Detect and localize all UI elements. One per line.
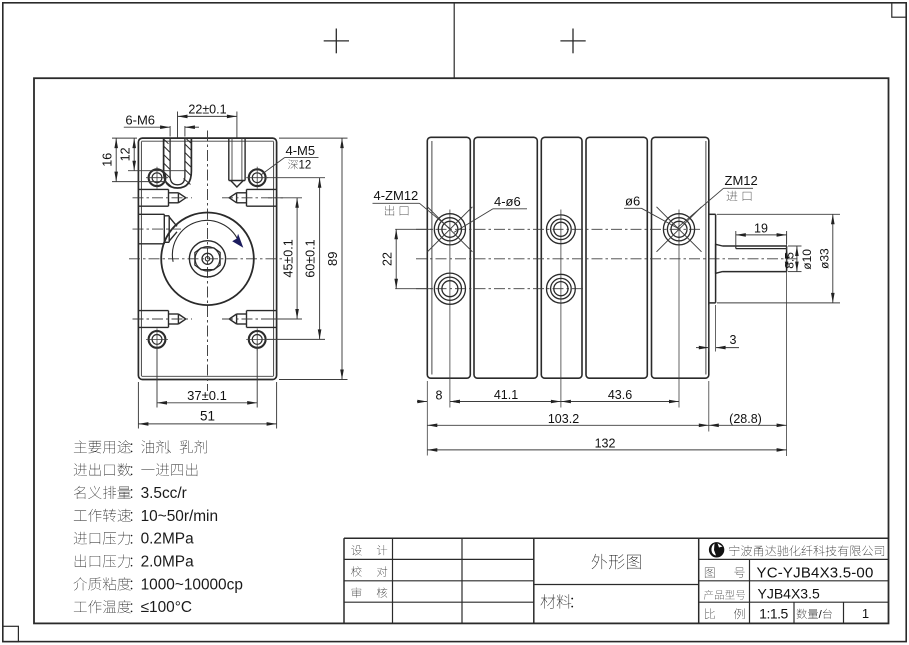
ZM12 port bottom-left: [434, 273, 465, 304]
hex socket: [195, 248, 220, 270]
dim ø33: [717, 213, 840, 215]
svg-text:22: 22: [380, 252, 394, 266]
svg-text:8: 8: [436, 389, 443, 403]
svg-text:YJB4X3.5: YJB4X3.5: [758, 586, 820, 602]
plate 5 chamfer line: [705, 141, 707, 375]
side port centerline: [133, 228, 182, 230]
M5 hole top-left: [146, 167, 168, 189]
ext line body-left: [426, 381, 428, 456]
body chamfer line right: [273, 142, 275, 377]
company name 宁波甬达驰化纤科技有限公司: [729, 545, 739, 556]
label 材料：: [541, 594, 556, 608]
dim 22±0.1 extension lines: [177, 112, 179, 138]
svg-text:ZM12: ZM12: [725, 173, 758, 188]
Ø6 port bottom-middle: [547, 274, 576, 303]
spec line 1: [74, 440, 87, 452]
ZM12 port top-left: [434, 214, 465, 245]
dim 37±0.1: [156, 347, 158, 408]
svg-text:12: 12: [299, 160, 312, 172]
pump section plate 4: [586, 137, 647, 378]
label 校对: [351, 566, 361, 576]
hex inscribed circle: [195, 246, 220, 271]
Ø33 boss: [709, 214, 716, 303]
title block col line 7: [843, 602, 845, 623]
svg-text:/: /: [819, 609, 823, 621]
svg-text:≤100°C: ≤100°C: [141, 599, 192, 616]
title block col line 3: [533, 538, 535, 623]
X mark on port top-right: [657, 207, 702, 252]
title block col line 6: [793, 602, 795, 623]
label 数量/台: [797, 609, 807, 619]
dim (28.8): [709, 424, 787, 426]
port column line 2: [560, 210, 562, 408]
shaft center dot: [205, 257, 209, 261]
title block row line 1: [344, 558, 534, 560]
spec line 8: [74, 602, 87, 612]
spec line 4: [74, 511, 87, 521]
svg-text:1: 1: [862, 606, 869, 621]
svg-text:12: 12: [119, 147, 133, 161]
side slot bottom-left: [138, 311, 185, 328]
side slot top-right: [229, 189, 276, 206]
shaft Ø10: [723, 246, 787, 272]
svg-text:132: 132: [595, 437, 616, 451]
horizontal centerline: [129, 258, 285, 260]
svg-text:41.1: 41.1: [494, 388, 518, 402]
M5 hole bottom-right: [246, 328, 268, 350]
svg-text:89: 89: [325, 252, 340, 266]
spec line 5: [74, 532, 87, 545]
rotation arc: [172, 220, 238, 261]
svg-text:3: 3: [730, 333, 737, 347]
shaft flat (8.5): [736, 248, 787, 250]
dim 60±0.1: [267, 177, 325, 179]
shaft circle small: [202, 253, 213, 264]
dim 43.6: [561, 401, 679, 403]
dim 132: [427, 449, 786, 451]
dim 19: [735, 231, 737, 247]
svg-text:1:1.5: 1:1.5: [759, 606, 788, 622]
svg-text:2.0MPa: 2.0MPa: [141, 554, 194, 571]
body chamfer line bottom: [142, 375, 274, 377]
title block col line 2: [461, 538, 463, 623]
ext line body-right: [708, 381, 710, 432]
X mark on port top-left: [427, 207, 472, 252]
shaft end extension line: [786, 234, 788, 456]
Ø6 port top-middle: [547, 215, 576, 244]
svg-text:ø33: ø33: [818, 248, 832, 269]
corner box bottom-left: [3, 626, 19, 641]
svg-text:4-ZM12: 4-ZM12: [374, 188, 419, 203]
slot centerline bottom: [133, 318, 193, 320]
side slot bottom-right: [229, 311, 276, 328]
dim 8.5: [786, 249, 788, 272]
dim 41.1: [450, 401, 561, 403]
body chamfer line top: [142, 140, 274, 142]
dim 45±0.1: [268, 197, 302, 199]
svg-text:22±0.1: 22±0.1: [188, 103, 226, 117]
M6 stud hatching: [164, 139, 192, 187]
dim 12: [128, 170, 186, 172]
dim 16: [112, 137, 137, 139]
svg-text:6-M6: 6-M6: [125, 113, 155, 128]
port column line 1: [449, 210, 451, 408]
side port boss: [138, 214, 177, 244]
dim 89: [279, 137, 348, 139]
dim 51: [137, 382, 139, 429]
body chamfer line left: [140, 142, 142, 377]
pump section plate 3: [541, 137, 582, 378]
title block top line: [344, 537, 889, 539]
corner box top-right: [892, 3, 906, 17]
pump body outline (front view): [138, 138, 276, 379]
main axis centerline: [416, 258, 799, 260]
slot centerline top: [133, 197, 193, 199]
dim 103.2: [427, 424, 709, 426]
spec line 6: [75, 554, 86, 567]
plate 1 chamfer line: [431, 141, 433, 375]
title block material divider: [534, 584, 699, 586]
label 设计: [351, 545, 361, 555]
spec line 2: [74, 463, 87, 476]
dim ø10: [788, 245, 802, 247]
dim 3 (boss width): [708, 305, 710, 352]
M5 hole top-right: [246, 167, 268, 189]
M6 stud inner slot: [170, 138, 185, 185]
title block left edge: [343, 538, 345, 623]
side slot top-left: [138, 189, 185, 206]
svg-text:3.5cc/r: 3.5cc/r: [141, 485, 187, 502]
bottom ports centerline: [416, 288, 584, 290]
top ports centerline: [416, 228, 701, 230]
svg-text:4-ø6: 4-ø6: [494, 194, 521, 209]
svg-text:10~50r/min: 10~50r/min: [141, 508, 218, 525]
svg-text:ø10: ø10: [800, 249, 814, 270]
label 产品型号: [704, 590, 713, 600]
svg-text:ø6: ø6: [625, 194, 640, 209]
registration cross left: [324, 29, 349, 54]
title block row line 3: [344, 601, 534, 603]
svg-text:(28.8): (28.8): [729, 412, 762, 426]
M5 hole bottom-left: [146, 328, 168, 350]
dim 8: [417, 401, 427, 403]
svg-text:1000~10000cp: 1000~10000cp: [141, 576, 243, 593]
svg-text:8.5: 8.5: [783, 252, 797, 269]
inner drawing frame: [34, 78, 889, 623]
spec line 7: [74, 577, 87, 590]
svg-text:19: 19: [754, 221, 768, 235]
spec line 3: [74, 486, 85, 499]
pump section plate 2: [474, 137, 537, 378]
svg-text:51: 51: [200, 409, 215, 424]
M6 stud section outline: [164, 138, 192, 188]
svg-text:43.6: 43.6: [608, 388, 632, 402]
ZM12 port top-right: [663, 214, 694, 245]
vertical centerline: [207, 131, 209, 392]
title block col line 5: [749, 559, 751, 623]
bearing circle: [189, 241, 225, 277]
company logo: [709, 542, 724, 557]
title block row line 2: [344, 580, 534, 582]
title block col line 1: [392, 538, 394, 623]
pump section plate 1: [427, 137, 470, 378]
svg-text:103.2: 103.2: [548, 412, 579, 426]
svg-text:4-M5: 4-M5: [286, 143, 316, 158]
svg-text:37±0.1: 37±0.1: [187, 388, 227, 403]
M6 tapped hole thread lines: [232, 138, 242, 180]
svg-text:45±0.1: 45±0.1: [281, 239, 295, 277]
label 图号: [705, 568, 715, 578]
port column line 3: [678, 210, 680, 408]
svg-text:0.2MPa: 0.2MPa: [141, 531, 194, 548]
label 审核: [352, 587, 361, 597]
svg-text:60±0.1: 60±0.1: [304, 239, 318, 277]
shaft cone: [716, 244, 723, 274]
title 外形图: [592, 554, 607, 569]
registration cross right: [560, 29, 585, 54]
M6 tapped hole right outline: [229, 138, 245, 187]
dim 22 (ports): [395, 228, 433, 230]
pump section plate 5: [652, 137, 709, 378]
dim 22±0.1: [178, 115, 237, 117]
rotor circle: [161, 212, 254, 305]
dim 6-M6 lines: [124, 126, 170, 128]
top band divider: [453, 3, 455, 78]
rotation arrowhead (navy): [232, 234, 243, 248]
svg-text:16: 16: [101, 153, 115, 167]
label 比例: [705, 608, 715, 619]
title block col line 4: [698, 538, 700, 623]
svg-text:YC-YJB4X3.5-00: YC-YJB4X3.5-00: [757, 564, 874, 581]
